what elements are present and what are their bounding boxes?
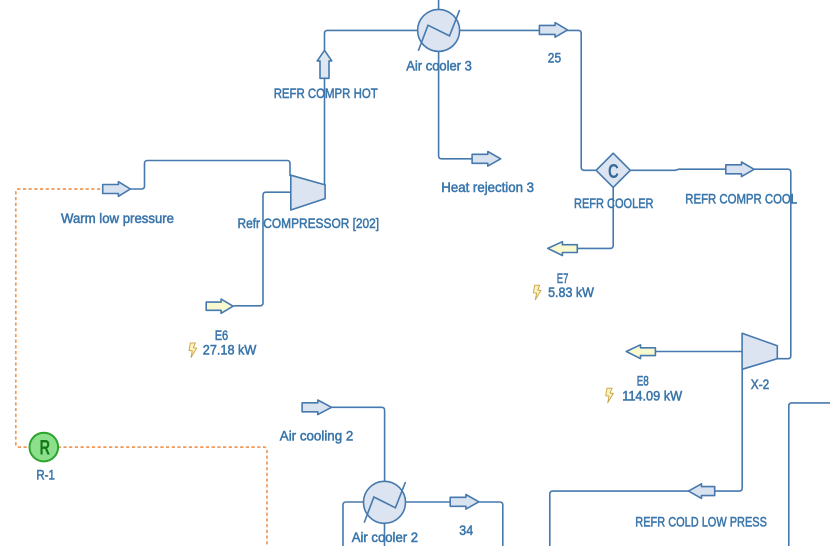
lightning icon for E7 [533,285,541,300]
svg-text:114.09 kW: 114.09 kW [622,387,683,403]
svg-text:25: 25 [548,49,561,65]
svg-text:Heat rejection 3: Heat rejection 3 [441,179,534,195]
compressor Refr COMPRESSOR [202] [291,175,325,210]
stream arrow: REFR COLD LOW PRESS (blue, left) [689,484,715,499]
svg-text:REFR COMPR HOT: REFR COMPR HOT [274,85,378,101]
expander X-2 [742,333,777,369]
svg-text:REFR COMPR COOL: REFR COMPR COOL [685,191,797,207]
wire: REFR COOLER bottom to energy stream E7 [577,187,613,248]
wire: Air cooler 3 bottom to Heat rejection 3 [439,51,473,159]
wire: Air cooler 2 bottom stub to bottom edge [384,523,386,546]
wire: right frame corner at canvas edge [789,403,830,546]
energy stream arrow E8 (yellow, left) [626,345,655,359]
stream arrow: Warm low pressure (blue, right) [103,182,131,197]
wire: Air cooler 2 right through stream 34 to bottom edge [405,502,503,546]
stream arrow: Heat rejection 3 (blue, right) [472,152,501,167]
wire: energy stream E6 to compressor [234,192,291,306]
air cooler 2 (circle with zigzag) [364,481,406,523]
svg-text:R: R [39,436,50,459]
stream arrow: 25 (blue, right) [539,23,567,38]
svg-text:Air cooler 3: Air cooler 3 [406,57,472,73]
svg-text:X-2: X-2 [751,376,770,392]
wire: X-2 outlet to REFR COLD LOW PRESS to bottom edge [550,369,742,546]
svg-text:Warm low pressure: Warm low pressure [61,210,174,226]
stream arrow: 34 (blue, right) [450,495,479,510]
cooler REFR COOLER (diamond with C) [596,153,630,187]
svg-text:REFR COOLER: REFR COOLER [574,195,654,211]
wire: REFR COOLER to REFR COMPR COOL down to X-2 inlet [630,169,791,359]
wire: compressor outlet riser to Air cooler 3 [325,30,418,185]
svg-text:Air cooling 2: Air cooling 2 [280,428,354,444]
recycle block R-1 (green circle with R) [30,433,59,462]
svg-text:34: 34 [459,522,473,538]
wire: Air cooler 3 top stub to canvas edge [438,0,440,10]
svg-text:Air cooler 2: Air cooler 2 [352,529,419,545]
svg-text:C: C [608,160,619,183]
wire: Warm low pressure feed to compressor inlet [130,161,290,190]
svg-text:5.83 kW: 5.83 kW [548,284,594,300]
wire: X-2 to energy stream E8 [655,351,742,353]
wire: recycle R-1 orange dashed connection [16,189,267,549]
lightning icon for E8 [606,388,614,403]
stream arrow: Air cooling 2 (blue, right) [302,400,331,415]
wire: Air cooler 2 left to bottom edge [343,502,364,546]
energy stream arrow E6 (yellow, right) [206,299,233,313]
svg-text:R-1: R-1 [36,466,55,482]
svg-text:REFR COLD LOW PRESS: REFR COLD LOW PRESS [635,513,767,529]
stream arrow: REFR COMPR HOT (blue, up) [317,50,332,78]
wire: Air cooler 3 to stream 25 to REFR COOLER diamond [459,30,596,170]
stream arrow: REFR COMPR COOL (blue, right) [726,162,754,177]
lightning icon for E6 [189,343,197,358]
svg-text:E8: E8 [637,373,649,389]
wire: Air cooling 2 feed down to Air cooler 2 [332,407,385,482]
svg-text:27.18 kW: 27.18 kW [203,342,257,358]
svg-text:Refr COMPRESSOR [202]: Refr COMPRESSOR [202] [238,215,380,231]
air cooler 3 (circle with zigzag) [418,9,460,51]
energy stream arrow E7 (yellow, left) [548,242,578,256]
